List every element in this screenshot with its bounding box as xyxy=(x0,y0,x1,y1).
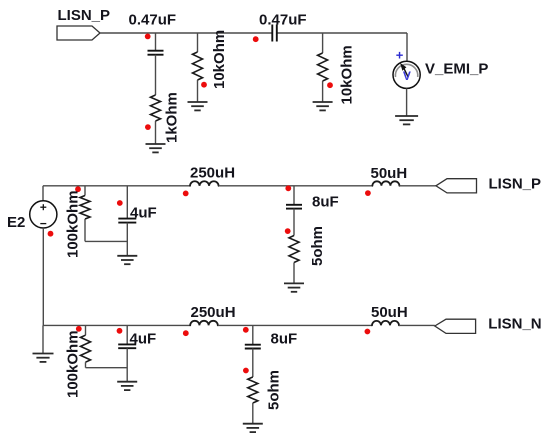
capacitor 0.47uF series xyxy=(271,25,273,42)
wire probe to ground xyxy=(406,88,408,116)
svg-text:V: V xyxy=(403,69,411,83)
ground below 10kOhm #2 xyxy=(313,101,333,103)
svg-text:50uH: 50uH xyxy=(371,304,408,321)
svg-text:LISN_P: LISN_P xyxy=(58,7,111,24)
wire to ground 10kOhm #1 xyxy=(197,80,199,102)
capacitor 4uF (mid) xyxy=(118,218,136,220)
wire stem 100kOhm mid xyxy=(84,186,86,196)
wire top from series cap to V probe branch xyxy=(277,32,407,34)
ground below 4uF mid xyxy=(117,255,137,257)
resistor 5ohm (mid) xyxy=(289,236,299,263)
wire stem 4uF bottom xyxy=(126,325,128,344)
svg-text:+: + xyxy=(396,47,404,62)
node dot at 10kOhm #1 bottom xyxy=(201,82,207,88)
wire bottom row segment 3 xyxy=(399,324,435,326)
svg-text:5ohm: 5ohm xyxy=(309,226,326,266)
svg-text:5ohm: 5ohm xyxy=(266,370,283,410)
node dot at 10kOhm #2 bottom xyxy=(327,82,333,88)
wire E2 top corner xyxy=(42,186,44,201)
ground below 5ohm bottom xyxy=(243,423,263,425)
node dot before 250uH bottom xyxy=(183,330,189,336)
inductor 250uH (bottom) xyxy=(190,321,218,326)
svg-text:LISN_N: LISN_N xyxy=(488,316,541,333)
wire stub to ground bottom-left xyxy=(42,325,44,353)
capacitor 8uF (bottom) xyxy=(245,344,261,346)
inductor 250uH (mid) xyxy=(190,181,219,186)
node dot above 5ohm bottom xyxy=(243,368,249,374)
wire stem 100kOhm bottom xyxy=(85,325,87,335)
ground below 5ohm mid xyxy=(284,282,304,284)
inductor 50uH (bottom) xyxy=(372,321,399,326)
node dot top-left junction xyxy=(145,34,151,40)
node dot at 1kOhm bottom xyxy=(145,124,151,130)
voltage probe V_EMI_P xyxy=(393,61,420,88)
svg-text:8uF: 8uF xyxy=(271,331,298,348)
ground below 10kOhm #1 xyxy=(188,101,208,103)
svg-text:0.47uF: 0.47uF xyxy=(259,12,307,29)
capacitor 4uF (bottom) xyxy=(118,343,136,345)
wire mid row segment 1 xyxy=(43,185,190,187)
ground below 4uF bottom xyxy=(117,381,137,383)
svg-text:10kOhm: 10kOhm xyxy=(211,30,228,89)
source E2 xyxy=(30,201,57,228)
node dot before 250uH mid xyxy=(183,191,189,197)
node dot above 5ohm mid xyxy=(285,228,291,234)
svg-text:LISN_P: LISN_P xyxy=(489,176,542,193)
svg-text:4uF: 4uF xyxy=(130,331,157,348)
wire cap to resistor 1kOhm xyxy=(155,55,157,95)
wire 4uF to ground mid xyxy=(126,223,128,256)
wire stem 8uF bottom xyxy=(252,325,254,344)
node dot before 50uH bottom xyxy=(365,329,371,335)
wire stem 8uF mid xyxy=(293,186,295,205)
svg-text:E2: E2 xyxy=(7,214,25,231)
wire branch1 stem to cap xyxy=(155,33,157,51)
capacitor 0.47uF (vertical branch) xyxy=(148,50,164,52)
resistor 100kOhm (mid) xyxy=(80,196,90,220)
node dot mid 100kOhm junction xyxy=(75,186,81,192)
wire E2 bottom long xyxy=(42,228,44,325)
svg-text:4uF: 4uF xyxy=(130,205,157,222)
svg-text:8uF: 8uF xyxy=(312,193,339,210)
node dot bottom 4uF junction xyxy=(117,328,123,334)
node dot bottom 100kOhm junction xyxy=(76,326,82,332)
wire 8uF to 5ohm bottom xyxy=(252,349,254,378)
svg-text:0.47uF: 0.47uF xyxy=(129,12,177,29)
resistor 10kOhm #2 xyxy=(318,53,328,81)
wire top from port to series cap xyxy=(100,32,272,34)
wire resistor to ground xyxy=(155,121,157,144)
wire 5ohm to ground mid xyxy=(293,263,295,284)
resistor 1kOhm xyxy=(151,95,161,121)
node dot left of series cap xyxy=(253,36,259,42)
capacitor 8uF (mid) xyxy=(286,204,302,206)
wire branch stem 10kOhm #1 xyxy=(197,33,199,52)
svg-text:250uH: 250uH xyxy=(190,164,235,181)
wire down to V probe xyxy=(406,33,408,61)
ground bottom-left (E2 return) xyxy=(33,353,54,355)
port LISN_P (input, top-left) xyxy=(57,26,100,40)
resistor 100kOhm (bottom) xyxy=(81,335,91,362)
svg-text:100kOhm: 100kOhm xyxy=(65,330,82,398)
wire bottom row segment 2 xyxy=(218,324,372,326)
wire branch stem 10kOhm #2 xyxy=(322,33,324,53)
svg-text:10kOhm: 10kOhm xyxy=(339,45,356,104)
port LISN_N (bottom right) xyxy=(435,319,476,333)
wire 5ohm bottom to ground xyxy=(252,403,254,424)
wire mid row segment 2 xyxy=(219,185,373,187)
svg-text:V_EMI_P: V_EMI_P xyxy=(425,61,488,78)
node dot 8uF junction bottom xyxy=(243,327,249,333)
node dot below E2 xyxy=(48,231,54,237)
port LISN_P (mid right) xyxy=(436,179,477,193)
ground below probe xyxy=(395,115,418,117)
node dot before 50uH mid xyxy=(365,190,371,196)
wire 8uF to 5ohm mid xyxy=(293,209,295,236)
svg-text:1kOhm: 1kOhm xyxy=(164,92,181,143)
svg-text:100kOhm: 100kOhm xyxy=(65,190,82,258)
resistor 5ohm (bottom) xyxy=(248,377,258,403)
ground below 1kOhm xyxy=(146,143,166,145)
node dot left of 4uF mid xyxy=(117,200,123,206)
inductor 50uH (mid) xyxy=(372,181,399,186)
wire mid row segment 3 xyxy=(399,185,436,187)
wire 100kOhm bottom L xyxy=(85,362,87,368)
wire 4uF bottom to ground xyxy=(126,348,128,382)
wire to ground 10kOhm #2 xyxy=(322,81,324,102)
wire stem 4uF mid xyxy=(126,186,128,219)
wire 100kOhm mid bottom L xyxy=(84,219,86,241)
wire bottom row segment 1 xyxy=(43,324,190,326)
svg-text:250uH: 250uH xyxy=(191,304,236,321)
node dot 8uF junction mid xyxy=(285,185,291,191)
svg-text:50uH: 50uH xyxy=(371,165,408,182)
resistor 10kOhm #1 xyxy=(193,52,203,80)
